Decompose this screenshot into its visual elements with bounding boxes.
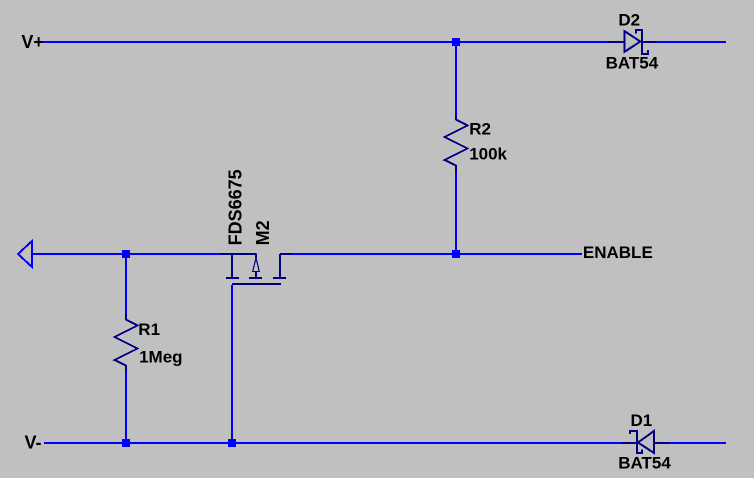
- svg-text:FDS6675: FDS6675: [226, 169, 246, 245]
- svg-text:D2: D2: [618, 10, 640, 29]
- svg-text:R2: R2: [469, 120, 491, 139]
- svg-text:V+: V+: [21, 32, 44, 52]
- transistor M2 source side: [221, 253, 257, 255]
- diode D1 cathode lead: [622, 442, 637, 444]
- svg-text:100k: 100k: [469, 145, 507, 164]
- node input port arrow: [18, 241, 32, 267]
- wire R2 top lead: [455, 41, 457, 117]
- wire M2 gate to V-: [231, 285, 233, 443]
- junction R1 / V-: [122, 439, 130, 447]
- wire input to MOSFET (mid-left): [32, 253, 222, 255]
- junction gate / V-: [228, 439, 236, 447]
- resistor R1: [115, 314, 138, 371]
- transistor M2 gate plate: [232, 283, 281, 285]
- junction V+ / R2: [452, 38, 460, 46]
- wire V+ top rail right of D2: [656, 41, 726, 43]
- resistor R2: [445, 115, 468, 171]
- diode D1 anode lead: [654, 442, 670, 444]
- svg-text:ENABLE: ENABLE: [583, 243, 653, 262]
- svg-text:V-: V-: [25, 433, 42, 453]
- svg-text:R1: R1: [138, 320, 160, 339]
- wire V- bottom rail left of D1: [44, 442, 622, 444]
- diode D2 cathode lead: [642, 41, 657, 43]
- wire V- bottom rail right of D1: [669, 442, 726, 444]
- diode D1 triangle: [638, 431, 654, 453]
- junction R2 / ENABLE: [452, 250, 460, 258]
- diode D2 anode lead: [608, 41, 625, 43]
- transistor M2 drain side: [279, 254, 281, 278]
- diode D2 schottky cathode: [636, 30, 648, 54]
- junction input / R1: [122, 250, 130, 258]
- wire R2 bottom lead: [455, 171, 457, 255]
- wire R1 top lead: [125, 253, 127, 315]
- wire R1 bottom lead: [125, 371, 127, 443]
- svg-text:BAT54: BAT54: [606, 54, 659, 73]
- wire MOSFET to ENABLE (mid-right): [290, 253, 582, 255]
- wire V+ top rail left of D2: [43, 41, 608, 43]
- svg-text:BAT54: BAT54: [618, 454, 671, 473]
- diode D1 schottky cathode: [630, 431, 642, 453]
- svg-text:D1: D1: [631, 411, 653, 430]
- svg-text:M2: M2: [253, 220, 273, 245]
- diode D2 triangle: [624, 31, 640, 52]
- transistor M2 bulk arrow: [255, 254, 257, 258]
- svg-text:1Meg: 1Meg: [139, 347, 182, 366]
